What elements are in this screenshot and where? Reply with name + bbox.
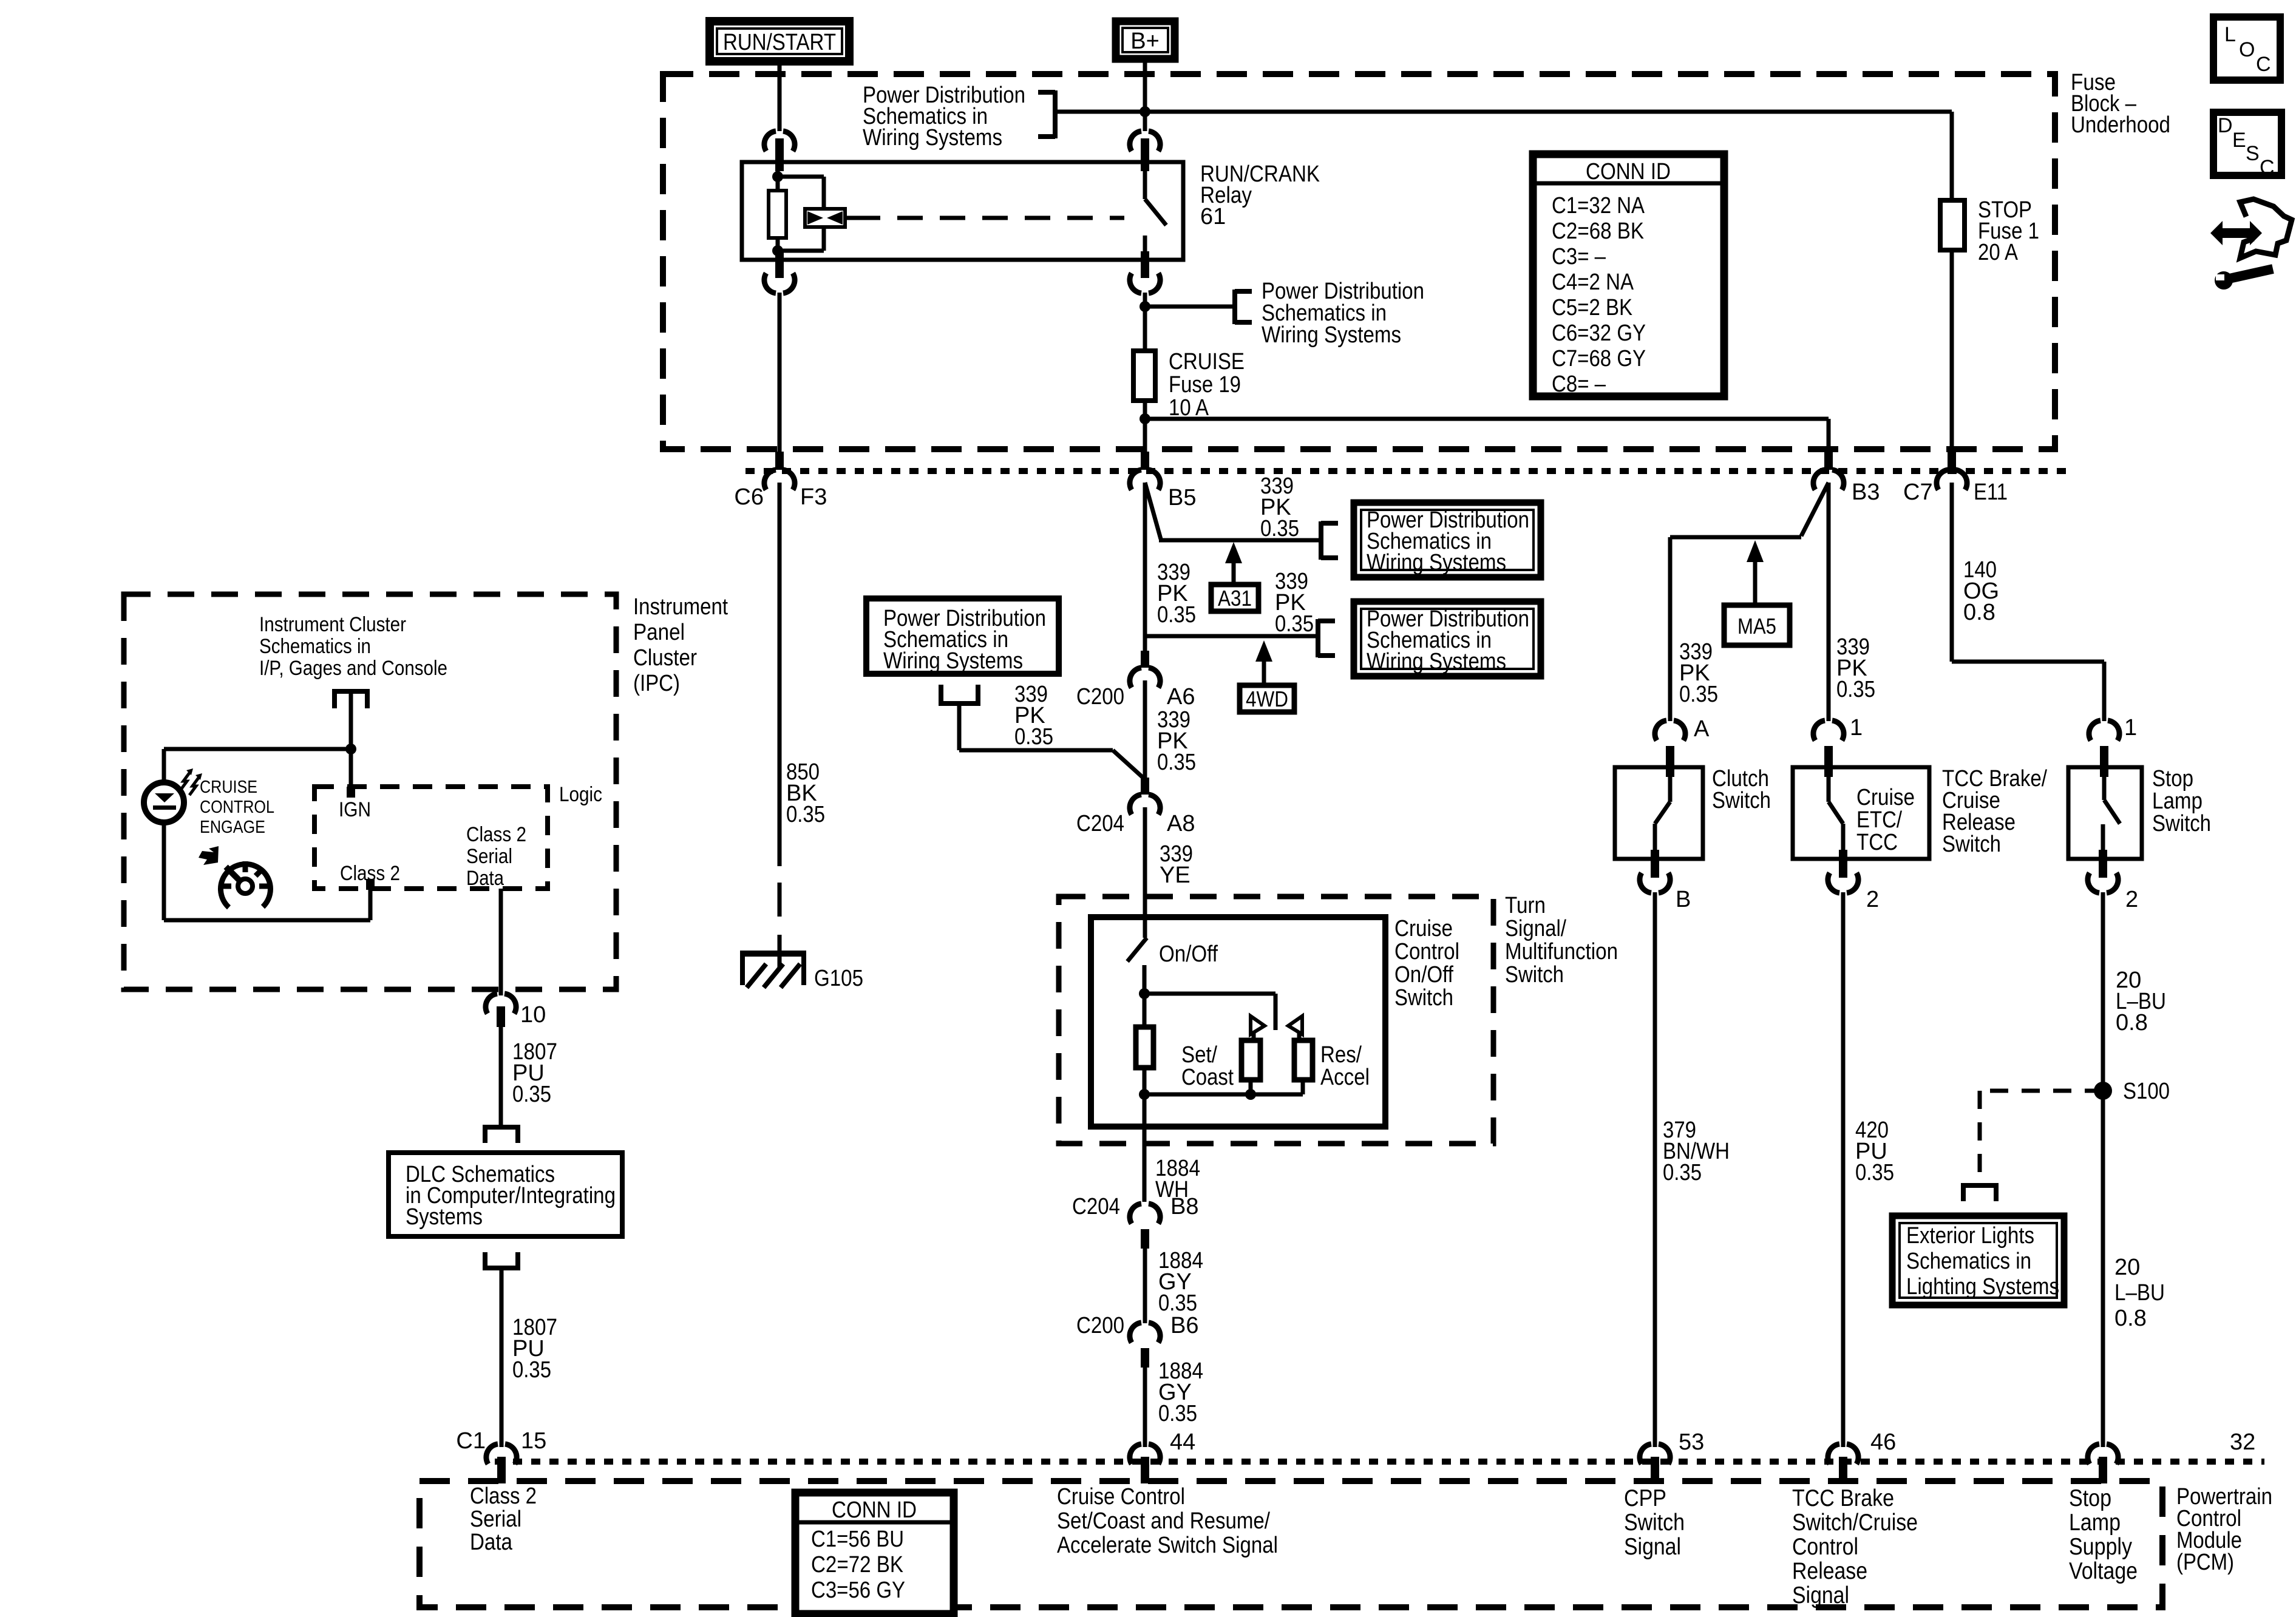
junction IGN branch <box>345 744 356 754</box>
svg-text:C204: C204 <box>1072 1194 1120 1219</box>
icon LOC box <box>2213 17 2280 80</box>
cruise etc/tcc switch box <box>1793 767 1929 859</box>
wire 420 PU <box>1841 892 1846 1447</box>
wire 1807 PU upper <box>499 1027 503 1125</box>
junction relay coil top <box>772 171 783 182</box>
svg-text:On/Off: On/Off <box>1159 941 1218 967</box>
reference box Exterior Lights Schematics <box>1892 1216 2064 1305</box>
reference box Power Distribution (branch 1) <box>1354 503 1541 577</box>
fuse STOP Fuse 1 20A <box>1940 200 1965 250</box>
junction bottom left <box>1139 1089 1150 1100</box>
table CONN ID (PCM) <box>795 1493 954 1614</box>
wire to cruise indicator <box>164 747 351 751</box>
turn signal multifunction switch dashed box <box>1059 897 1493 1144</box>
connector IPC pin 10 <box>486 994 516 1014</box>
dashed wire S100 to exterior lights <box>1980 1089 2103 1093</box>
svg-text:A: A <box>1694 716 1710 742</box>
svg-text:C204: C204 <box>1076 811 1124 836</box>
connector cruise etc pin 2 <box>1839 850 1847 878</box>
icon DESC box <box>2213 112 2281 175</box>
lamp flash arrows <box>180 772 190 790</box>
svg-text:C7: C7 <box>1903 480 1933 505</box>
svg-text:339YE: 339YE <box>1160 841 1193 888</box>
contact flag right (Res/Accel) <box>1288 1016 1302 1034</box>
stop lamp switch box <box>2068 767 2142 859</box>
svg-text:C200: C200 <box>1076 1313 1124 1338</box>
arrow 4WD <box>1255 640 1272 662</box>
relay actuation dashed link <box>845 216 855 220</box>
svg-text:B8: B8 <box>1170 1194 1198 1219</box>
svg-text:32: 32 <box>2230 1429 2255 1455</box>
table CONN ID (fuse block) <box>1533 154 1724 396</box>
svg-text:CruiseControlOn/OffSwitch: CruiseControlOn/OffSwitch <box>1394 916 1459 1011</box>
wire B+ down <box>1143 59 1147 131</box>
clutch switch box <box>1615 767 1703 859</box>
relay coil element <box>805 209 845 227</box>
splice S100 <box>2094 1082 2112 1100</box>
connector stop lamp pin 2 <box>2099 850 2107 878</box>
svg-text:Logic: Logic <box>559 783 602 806</box>
svg-text:Class 2: Class 2 <box>340 862 400 885</box>
svg-text:S100: S100 <box>2123 1079 2170 1104</box>
svg-text:C: C <box>2256 53 2271 76</box>
bracket power distribution (mid) <box>1232 290 1237 324</box>
wire 379 BN/WH <box>1653 892 1657 1447</box>
connector relay coil pin (top left) <box>764 131 795 151</box>
svg-text:2: 2 <box>2125 887 2138 912</box>
connector C200 / B6 <box>1130 1323 1160 1343</box>
svg-text:B3: B3 <box>1852 480 1880 505</box>
bracket above exterior lights box <box>1961 1183 1999 1188</box>
wire 850 BK <box>778 293 782 452</box>
wire E11 to stop lamp switch <box>1950 483 1954 662</box>
relay coil branch wires <box>778 175 824 179</box>
svg-text:1: 1 <box>1850 715 1863 741</box>
wire relay to CRUISE fuse <box>1143 293 1147 351</box>
connector B3 <box>1824 452 1833 470</box>
connector B5 <box>1141 452 1149 470</box>
svg-text:D: D <box>2218 114 2233 137</box>
connector PCM pin 32 <box>2088 1444 2118 1464</box>
wire lamp to class 2 <box>162 821 166 920</box>
svg-text:O: O <box>2239 38 2255 61</box>
connector below relay right <box>1141 251 1149 278</box>
bracket power distribution (branch 2) <box>1316 619 1320 657</box>
indicator CRUISE CONTROL ENGAGE lamp <box>144 782 184 822</box>
relay RUN/CRANK Relay 61 box <box>742 162 1183 260</box>
relay switch blade <box>1143 162 1147 199</box>
junction at B+ wire <box>1140 106 1150 117</box>
connector clutch switch pin B <box>1651 850 1659 878</box>
logic box pin nub IGN <box>347 787 355 798</box>
wire B3 to cruise etc/tcc <box>1827 483 1831 721</box>
connector C200 / A6 <box>1141 651 1149 668</box>
svg-text:L: L <box>2224 23 2236 46</box>
reference box DLC Schematics <box>389 1153 622 1236</box>
resistor main (on/off) <box>1136 1027 1153 1068</box>
connector C204 / A8 <box>1141 778 1149 795</box>
svg-text:C1=56 BUC2=72 BKC3=56 GY: C1=56 BUC2=72 BKC3=56 GY <box>811 1527 905 1603</box>
wire power feed to STOP fuse <box>1055 110 1952 114</box>
cruise control on/off switch box <box>1091 917 1385 1127</box>
reference box Power Distribution (left) <box>866 598 1059 674</box>
wire A8 to on/off switch <box>1143 807 1147 938</box>
connector PCM pin 44 <box>1130 1444 1160 1464</box>
junction power distribution mid <box>1140 301 1150 312</box>
junction fuse output <box>1140 413 1150 424</box>
connector PCM pin 15 <box>486 1444 517 1464</box>
bottom bus of switch network <box>1249 1080 1253 1094</box>
svg-text:B+: B+ <box>1130 29 1160 54</box>
icon speedometer gauge <box>220 864 270 907</box>
logic box pin nub Class 2 <box>366 879 375 890</box>
wire fuse output to B3 <box>1145 417 1829 421</box>
svg-text:A8: A8 <box>1167 811 1195 836</box>
wire 850 BK below C6 <box>778 483 782 866</box>
wire switch output <box>1143 1094 1147 1202</box>
fuse block - underhood dashed outline <box>663 74 2055 449</box>
svg-text:ClutchSwitch: ClutchSwitch <box>1712 766 1771 813</box>
icon cruise resume arrow <box>199 846 219 865</box>
connector PCM pin 53 <box>1640 1444 1670 1464</box>
svg-text:B6: B6 <box>1170 1313 1198 1338</box>
bracket power distribution (branch 1) <box>1319 521 1323 560</box>
bracket above DLC box <box>483 1125 520 1130</box>
svg-text:15: 15 <box>521 1428 546 1454</box>
wire on/off to set/coast network <box>1143 965 1147 1027</box>
connector PCM pin 46 <box>1828 1444 1858 1464</box>
connector separator dotted line <box>746 468 2071 474</box>
instrument panel cluster dashed box <box>124 594 616 989</box>
connector stop lamp pin 1 <box>2089 720 2119 741</box>
svg-text:C200: C200 <box>1076 684 1124 710</box>
svg-text:B5: B5 <box>1168 485 1196 510</box>
svg-text:C6: C6 <box>734 484 764 510</box>
svg-text:A31: A31 <box>1218 586 1252 611</box>
connector cruise etc pin 1 <box>1813 720 1844 741</box>
logic dashed box <box>314 787 548 889</box>
svg-text:S: S <box>2246 142 2260 165</box>
wire class 2 serial data output <box>499 889 503 995</box>
resistor Res/Accel <box>1294 1040 1313 1080</box>
wire B3 to clutch switch <box>1801 483 1829 536</box>
svg-text:140OG0.8: 140OG0.8 <box>1963 557 1999 625</box>
powertrain control module dashed box <box>419 1481 2162 1607</box>
wire 20 L-BU <box>2101 892 2105 1447</box>
svg-text:E: E <box>2232 129 2246 152</box>
bracket below DLC box <box>483 1266 520 1270</box>
wire B8 to B6 <box>1143 1249 1147 1323</box>
svg-text:10: 10 <box>520 1002 546 1028</box>
wire B6 to PCM pin 44 <box>1143 1368 1147 1447</box>
junction relay coil bottom <box>772 245 783 256</box>
wire to logic box <box>349 691 353 787</box>
wire C200 to C204 <box>1143 680 1147 778</box>
svg-text:CONN ID: CONN ID <box>832 1497 917 1523</box>
connector clutch switch pin A <box>1655 720 1685 741</box>
connector below relay left <box>775 251 784 278</box>
bracket to power distribution (top) <box>1053 90 1058 138</box>
wire B5 to first branch <box>1145 483 1161 539</box>
svg-text:C: C <box>2260 156 2275 179</box>
svg-text:G105: G105 <box>814 966 863 991</box>
wire RUN/START down <box>778 61 782 131</box>
bracket below left power distribution box <box>939 685 943 702</box>
svg-text:RUN/START: RUN/START <box>723 30 836 55</box>
wire branch 2 <box>1145 634 1318 639</box>
bracket below instrument cluster text <box>332 689 370 694</box>
wire B5 main down <box>1143 483 1147 651</box>
junction top of resistor network <box>1139 988 1150 999</box>
wire CRUISE fuse to B5 <box>1143 401 1147 452</box>
svg-text:4WD: 4WD <box>1246 686 1288 711</box>
svg-text:F3: F3 <box>800 484 827 510</box>
PCM separator dotted line <box>495 1459 2264 1465</box>
cruise etc switch blade <box>1827 767 1831 802</box>
connector relay switch pin (top right) <box>1130 131 1160 151</box>
svg-text:E11: E11 <box>1974 480 2008 505</box>
fuse CRUISE Fuse 19 10A <box>1133 351 1155 401</box>
clutch switch blade <box>1668 767 1673 802</box>
connector E11 <box>1948 452 1956 470</box>
svg-text:1: 1 <box>2124 715 2137 741</box>
junction bottom middle <box>1245 1089 1256 1100</box>
arrow A31 <box>1225 542 1242 563</box>
wire STOP fuse to E11 <box>1950 250 1954 452</box>
svg-text:IGN: IGN <box>339 798 371 821</box>
wire 1807 PU lower <box>500 1268 504 1447</box>
connector C6 / F3 <box>775 452 784 470</box>
reference box Power Distribution (branch 2) <box>1354 602 1541 676</box>
terminal RUN/START <box>710 21 849 61</box>
arrow MA5 <box>1747 540 1764 562</box>
svg-text:2: 2 <box>1866 887 1879 912</box>
svg-text:B: B <box>1676 887 1691 912</box>
switch On/Off blade <box>1127 938 1147 961</box>
svg-text:46: 46 <box>1870 1429 1896 1455</box>
resistor Set/Coast <box>1241 1040 1260 1080</box>
ground G105 <box>740 951 806 957</box>
icon adjust arrow with wrench <box>2240 199 2292 258</box>
svg-text:CONN ID: CONN ID <box>1586 159 1671 185</box>
connector C204 / B8 <box>1130 1204 1160 1224</box>
svg-text:A6: A6 <box>1167 684 1195 710</box>
stop lamp switch blade <box>2102 767 2107 800</box>
svg-text:C1: C1 <box>456 1428 486 1454</box>
svg-text:MA5: MA5 <box>1737 614 1776 639</box>
terminal B+ <box>1116 21 1175 59</box>
relay coil resistor <box>776 162 780 191</box>
wire left branch to A8 <box>957 703 962 750</box>
svg-text:44: 44 <box>1170 1429 1195 1455</box>
contact flag left (Set/Coast) <box>1251 1016 1265 1034</box>
svg-text:C1=32 NAC2=68 BKC3= –C4=2 NAC5: C1=32 NAC2=68 BKC3= –C4=2 NAC5=2 BKC6=32… <box>1552 193 1646 397</box>
svg-text:53: 53 <box>1679 1429 1704 1455</box>
